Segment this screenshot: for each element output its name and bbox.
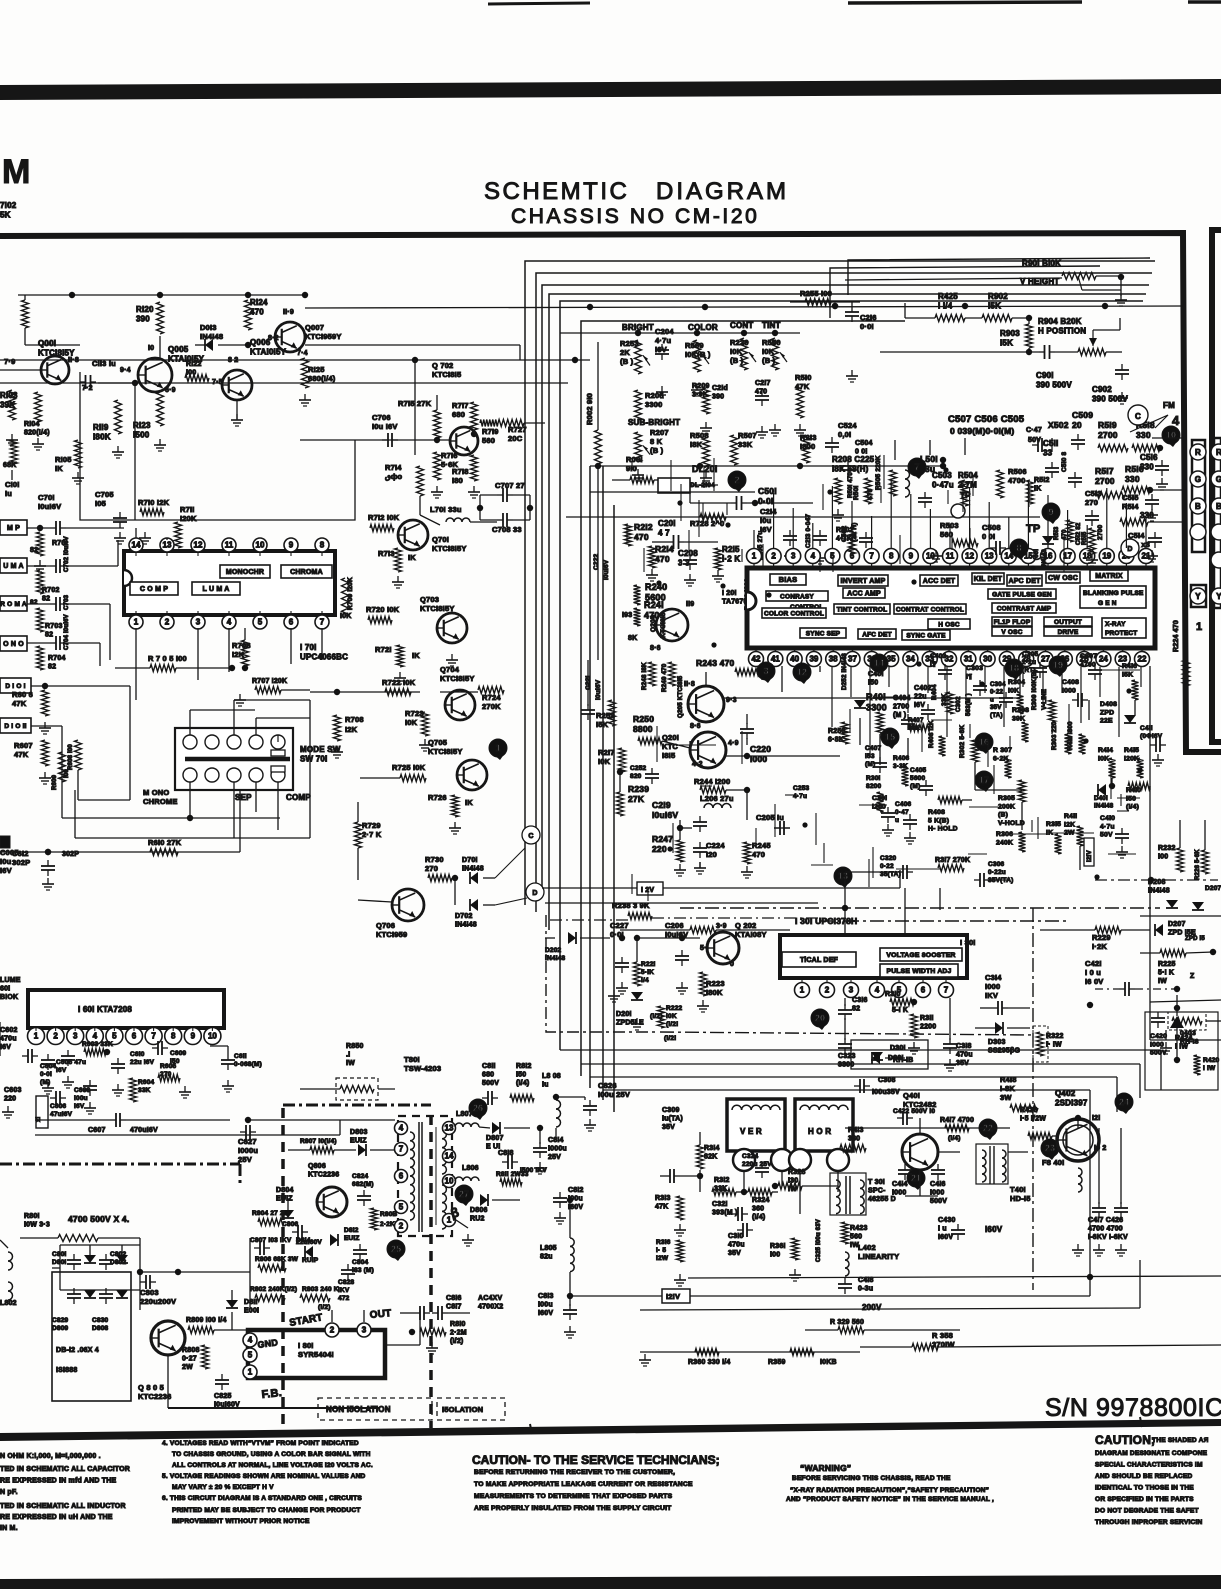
pin 22 of I201	[1135, 648, 1150, 667]
svg-text:R4I6: R4I6	[1122, 663, 1137, 670]
svg-text:C8I6: C8I6	[446, 1295, 462, 1302]
svg-text:R223: R223	[706, 979, 725, 988]
svg-text:F.B.: F.B.	[261, 1387, 283, 1401]
resistor R232	[1158, 845, 1184, 872]
svg-text:IMPROVEMENT WITHOUT PRIOR: IMPROVEMENT WITHOUT PRIOR NOTICE	[172, 1518, 310, 1525]
resistor R605	[158, 1063, 191, 1098]
svg-text:C407: C407	[865, 745, 882, 752]
svg-text:470: 470	[655, 554, 670, 564]
svg-text:3: 3	[196, 618, 201, 627]
wire bus bottom H1	[560, 1050, 1161, 1090]
resistor R718	[452, 455, 480, 498]
resistor R722	[382, 678, 416, 696]
input box COMP	[0, 520, 27, 535]
resistor R705	[115, 654, 248, 672]
svg-text:CAUTION- TO THE SERVICE TECHNC: CAUTION- TO THE SERVICE TECHNCIANS;	[472, 1453, 720, 1467]
svg-text:82: 82	[30, 547, 38, 554]
svg-text:C5I5: C5I5	[1122, 493, 1139, 502]
diode D803	[350, 1129, 395, 1156]
ground flyback	[1072, 1244, 1127, 1256]
label I701	[300, 643, 348, 662]
svg-text:IW: IW	[1158, 978, 1167, 985]
resistor R603	[82, 1041, 113, 1056]
wire vertical x603	[602, 466, 604, 1100]
svg-text:9: 9	[289, 541, 294, 550]
pin 14 T801	[443, 1150, 456, 1163]
svg-text:0·47: 0·47	[895, 809, 909, 816]
resistor R315	[1046, 821, 1062, 854]
capacitor C305	[1022, 651, 1047, 678]
svg-text:I80: I80	[452, 476, 463, 485]
capacitor C310	[728, 1223, 753, 1257]
resistor R502	[853, 478, 874, 504]
svg-text:D8I2: D8I2	[344, 1227, 359, 1234]
svg-text:D70I: D70I	[462, 857, 478, 864]
svg-text:E00I: E00I	[244, 1308, 259, 1315]
capacitor C818	[498, 1150, 547, 1174]
svg-text:I000: I000	[1062, 687, 1076, 694]
resistor R401	[866, 692, 887, 734]
svg-text:OUTPUT: OUTPUT	[1054, 619, 1082, 626]
pin 6 of I301	[916, 978, 931, 998]
svg-text:IK: IK	[465, 798, 473, 807]
resistor R503	[930, 521, 978, 562]
capacitor C309	[660, 1107, 683, 1183]
resistor R416	[1122, 663, 1139, 700]
transistor Q806	[317, 1187, 347, 1217]
svg-text:680: 680	[482, 1072, 494, 1079]
svg-text:OUT: OUT	[369, 1308, 392, 1321]
wire cluster mesh	[860, 700, 1150, 870]
mode sw contact bottom 3	[227, 768, 241, 782]
svg-text:470u: 470u	[728, 1242, 745, 1249]
capacitor C627	[238, 1125, 258, 1164]
svg-text:470u: 470u	[0, 1036, 17, 1043]
pin 4 of I201	[805, 549, 820, 569]
resistor R413	[840, 1127, 866, 1152]
svg-text:C O M P: C O M P	[140, 586, 168, 593]
capacitor C704	[37, 614, 71, 670]
wire dashdot H y921	[820, 920, 1070, 922]
svg-text:D803: D803	[350, 1129, 368, 1136]
svg-text:COMP: COMP	[286, 793, 311, 802]
capacitor C513	[1076, 489, 1102, 545]
IC I301 body	[780, 935, 967, 978]
svg-text:RI03: RI03	[0, 391, 18, 400]
svg-text:R505 220K: R505 220K	[875, 455, 882, 490]
svg-text:C605 47u: C605 47u	[56, 1059, 86, 1066]
resistor R850 dashed	[300, 1043, 395, 1100]
svg-text:TED IN SCHEMATIC ALL INDUCTOR: TED IN SCHEMATIC ALL INDUCTOR	[0, 1503, 126, 1510]
capacitor C602	[0, 1022, 38, 1063]
svg-text:38: 38	[829, 655, 838, 664]
wire flyback	[845, 1115, 1121, 1204]
wire 12v line	[663, 870, 900, 888]
svg-text:MEASUREMENTS TO DETERMINE TH: MEASUREMENTS TO DETERMINE THAT EXPOSED P…	[474, 1493, 673, 1500]
connector2 pin G	[1211, 471, 1221, 487]
svg-text:R3II: R3II	[920, 1015, 934, 1022]
circle D	[1121, 539, 1139, 557]
svg-text:C220: C220	[750, 744, 771, 754]
svg-text:I8I5: I8I5	[662, 751, 675, 760]
input box CHROMA	[0, 596, 27, 611]
svg-text:IKV: IKV	[338, 1287, 350, 1294]
svg-text:C8I2: C8I2	[568, 1187, 584, 1194]
resistor R302	[959, 725, 979, 762]
svg-text:IW: IW	[346, 1060, 355, 1067]
resistor R358	[860, 1331, 1221, 1351]
capacitor C405	[910, 767, 933, 796]
svg-text:COLOR CONTROL: COLOR CONTROL	[764, 610, 824, 617]
flag 27	[455, 1185, 473, 1206]
svg-text:33K: 33K	[738, 440, 753, 449]
svg-text:R7I0 I2K: R7I0 I2K	[138, 498, 170, 507]
wire audio block bottom	[25, 345, 355, 520]
input box AUDIO II	[0, 718, 31, 733]
handwriting FB	[261, 1387, 283, 1401]
svg-text:2·7 K: 2·7 K	[362, 830, 382, 839]
svg-text:I0K: I0K	[1098, 755, 1109, 762]
svg-text:RU2: RU2	[470, 1216, 485, 1223]
svg-text:(M): (M)	[40, 1079, 50, 1086]
wire right loops	[830, 258, 1150, 318]
svg-text:CHASSIS NO CM-I20: CHASSIS NO CM-I20	[511, 205, 759, 228]
svg-text:I0 2: I0 2	[1094, 1145, 1106, 1152]
svg-text:C2Id: C2Id	[712, 385, 728, 392]
pin 1 of I801	[243, 1365, 257, 1379]
svg-text:2K: 2K	[620, 348, 630, 357]
pot R509 COLOR	[685, 323, 718, 396]
label I801	[298, 1341, 334, 1359]
svg-text:C2I7: C2I7	[755, 380, 771, 387]
svg-text:60I: 60I	[0, 986, 10, 993]
svg-text:R604: R604	[138, 1079, 155, 1086]
svg-text:IK: IK	[412, 651, 420, 660]
svg-text:I800: I800	[800, 442, 815, 451]
svg-text:I0W 3·3: I0W 3·3	[24, 1222, 50, 1229]
svg-text:302P: 302P	[12, 858, 30, 867]
svg-text:R809 I00 I/4: R809 I00 I/4	[186, 1317, 227, 1324]
connector2 pin nc	[1211, 524, 1221, 540]
svg-text:R4I2 I800: R4I2 I800	[1067, 721, 1074, 750]
svg-text:4: 4	[1172, 413, 1180, 428]
wire bus loop 4	[549, 294, 1146, 930]
flag 20	[811, 1009, 829, 1030]
svg-text:R607: R607	[14, 741, 33, 750]
svg-text:Q 8 0 5: Q 8 0 5	[138, 1383, 164, 1392]
capacitor C113	[68, 357, 116, 389]
flag 8	[1010, 539, 1028, 560]
svg-text:TSW-4203: TSW-4203	[404, 1064, 441, 1073]
svg-text:R420: R420	[1203, 1057, 1220, 1064]
svg-text:560: 560	[940, 530, 953, 539]
svg-text:I/4: I/4	[641, 977, 649, 984]
bridge cap C829	[52, 1288, 81, 1332]
svg-text:IK: IK	[55, 464, 63, 473]
svg-text:47K: 47K	[14, 750, 29, 759]
diode D252	[841, 653, 866, 708]
svg-text:C80I: C80I	[52, 1251, 67, 1258]
wire top edge segment	[488, 2, 1221, 4]
resistor R730	[425, 855, 458, 882]
svg-text:C205 Iu: C205 Iu	[756, 813, 784, 822]
block LUMA	[192, 582, 240, 595]
resistor R105	[55, 440, 84, 484]
capacitor C706	[372, 413, 398, 447]
label Q402	[1055, 1089, 1106, 1152]
svg-text:8800: 8800	[633, 724, 653, 734]
resistor R311	[908, 1014, 936, 1054]
svg-text:I30: I30	[788, 1178, 798, 1185]
flag 13	[834, 867, 852, 888]
svg-text:ZPD5I E: ZPD5I E	[616, 1020, 644, 1027]
svg-text:C826: C826	[598, 1081, 617, 1090]
capacitor C408	[1062, 679, 1088, 707]
svg-text:ARE PROPERLY INSULATED FROM: ARE PROPERLY INSULATED FROM THE SUPPLY C…	[474, 1505, 672, 1512]
svg-text:39: 39	[809, 655, 818, 664]
handwriting GND	[257, 1308, 392, 1350]
block MATRIX	[1090, 570, 1128, 581]
resistor R807	[288, 1138, 356, 1154]
resistor R606	[12, 683, 51, 734]
capacitor C609	[152, 1041, 187, 1065]
svg-text:2·2u: 2·2u	[1022, 659, 1036, 666]
svg-text:6: 6	[289, 618, 294, 627]
svg-text:R3I2: R3I2	[714, 1177, 730, 1184]
svg-text:Q40I: Q40I	[903, 1091, 920, 1100]
wire x337	[310, 691, 478, 693]
svg-text:82: 82	[48, 664, 56, 671]
svg-text:2W: 2W	[182, 1364, 193, 1371]
svg-text:6: 6	[399, 1172, 404, 1181]
capacitor C324	[742, 1153, 772, 1178]
svg-text:R002 9I0: R002 9I0	[585, 393, 594, 425]
pin 3 of I201	[786, 549, 801, 569]
svg-text:23: 23	[1045, 1143, 1055, 1153]
wire RGB feeds	[1148, 438, 1186, 522]
pin 21 of I201	[1139, 549, 1154, 569]
svg-text:F8 40I: F8 40I	[1042, 1158, 1064, 1167]
svg-text:T40I: T40I	[1010, 1185, 1026, 1194]
coil L808	[542, 1073, 585, 1140]
label T801	[404, 1055, 441, 1073]
svg-text:22: 22	[1138, 655, 1147, 664]
svg-text:(M ): (M )	[893, 712, 906, 719]
svg-text:L206 27u: L206 27u	[700, 794, 734, 803]
svg-text:R255 I00: R255 I00	[800, 289, 832, 298]
block CONTRAST AMP	[992, 603, 1056, 613]
capacitor C503	[918, 471, 978, 508]
mode sw contact top 5	[271, 735, 285, 749]
svg-text:D0I3: D0I3	[200, 323, 217, 332]
transistor Q706	[392, 889, 424, 921]
svg-text:C406: C406	[895, 801, 912, 808]
svg-text:R704: R704	[48, 655, 66, 662]
wire I701 bottoms	[136, 628, 322, 700]
svg-text:15: 15	[885, 732, 895, 742]
svg-text:3W: 3W	[1000, 1093, 1012, 1102]
svg-text:I0u: I0u	[0, 857, 12, 866]
svg-text:7·2: 7·2	[82, 385, 93, 392]
resistor R240	[634, 582, 668, 605]
svg-text:CONRASY: CONRASY	[780, 593, 814, 600]
svg-text:Q 702: Q 702	[432, 361, 453, 370]
svg-text:39K: 39K	[1012, 715, 1025, 722]
coil L501	[875, 454, 938, 497]
svg-text:I u: I u	[938, 1226, 947, 1233]
capacitor C511	[1043, 439, 1059, 478]
capacitor C504 area	[832, 440, 875, 521]
resistor R245	[741, 841, 771, 878]
block AFC DET	[858, 629, 896, 639]
svg-text:3300: 3300	[838, 1062, 854, 1069]
capacitor C508	[982, 523, 1006, 555]
capacitor C824	[352, 1173, 374, 1206]
pin 20 of I201	[1119, 549, 1134, 569]
svg-text:I0uI6V: I0uI6V	[38, 502, 61, 511]
svg-text:2: 2	[330, 1326, 335, 1335]
capacitor C214	[760, 507, 797, 562]
resistor R812	[510, 1063, 534, 1102]
wire right v	[1150, 760, 1205, 1040]
svg-text:C325 I00u 63V: C325 I00u 63V	[816, 1219, 822, 1262]
svg-text:(I/2I: (I/2I	[666, 1021, 678, 1028]
svg-text:5·I: 5·I	[700, 945, 709, 952]
svg-text:RI20: RI20	[136, 305, 154, 314]
capacitor C204	[655, 327, 674, 398]
svg-text:2200: 2200	[920, 1024, 936, 1031]
svg-text:R8I2: R8I2	[516, 1063, 532, 1070]
svg-text:I5K: I5K	[1122, 671, 1133, 678]
svg-text:0·22u: 0·22u	[988, 869, 1006, 876]
svg-text:IN4I48: IN4I48	[462, 866, 484, 873]
svg-text:RUIP: RUIP	[302, 1257, 319, 1264]
svg-text:C42I: C42I	[1085, 959, 1102, 968]
capacitor C221	[581, 660, 602, 720]
capacitor C813	[538, 1272, 577, 1338]
capacitor C807	[250, 1237, 292, 1255]
resistor R306	[996, 831, 1026, 852]
svg-text:82: 82	[852, 1006, 860, 1013]
resistor R610	[148, 790, 240, 856]
svg-text:R509: R509	[685, 341, 704, 350]
input box LUMA	[0, 558, 27, 573]
svg-text:4: 4	[227, 618, 232, 627]
pin 9 of I701	[284, 538, 298, 556]
note column 1	[0, 1453, 130, 1532]
pin 11 of I701	[222, 538, 236, 556]
diode D301c	[872, 1045, 913, 1064]
resistor R721	[375, 645, 458, 684]
resistor R724	[478, 687, 504, 712]
svg-text:R00I: R00I	[626, 455, 643, 464]
svg-text:R608 I00: R608 I00	[68, 744, 74, 770]
svg-text:12: 12	[194, 541, 203, 550]
resistor R805	[371, 1208, 405, 1230]
svg-text:13: 13	[985, 552, 994, 561]
bridge cap C801	[52, 1251, 81, 1270]
svg-text:1: 1	[248, 1368, 253, 1377]
svg-text:5: 5	[399, 1203, 404, 1212]
capacitor C901	[880, 345, 1078, 390]
wire bus bottom H2	[581, 1064, 1140, 1098]
svg-text:R304: R304	[1008, 679, 1025, 686]
svg-text:R309 I00K(B): R309 I00K(B)	[1031, 669, 1038, 710]
label SEP	[235, 793, 252, 802]
svg-text:24: 24	[1119, 1097, 1129, 1107]
resistor R312	[712, 1177, 736, 1196]
coil L402	[845, 1243, 899, 1276]
pin 19 of I201	[1099, 549, 1114, 569]
resistor R506	[997, 467, 1050, 504]
svg-text:CONT: CONT	[730, 321, 753, 330]
pin 16 of I201	[1041, 549, 1056, 569]
capacitor C811	[482, 1063, 499, 1105]
transistor Q204	[656, 609, 688, 641]
svg-text:1: 1	[752, 552, 757, 561]
svg-text:II9: II9	[686, 601, 694, 608]
svg-text:D30I: D30I	[890, 1045, 906, 1052]
input box AUDIO I	[0, 678, 31, 693]
pot R408 H-HOLD	[928, 797, 972, 833]
capacitor C610	[111, 1051, 155, 1096]
svg-text:R723: R723	[405, 709, 424, 718]
svg-text:C502: C502	[841, 525, 848, 542]
diode D811	[226, 1290, 259, 1330]
capacitor C208	[678, 549, 698, 586]
capacitor C515	[1122, 493, 1159, 521]
box D301 rh	[851, 1040, 928, 1069]
svg-text:R803 240 K: R803 240 K	[302, 1286, 339, 1293]
pin 11 of I201	[943, 549, 958, 569]
resistor R729	[355, 802, 382, 880]
svg-text:C603: C603	[4, 1087, 22, 1094]
svg-text:220u 25V: 220u 25V	[742, 1161, 772, 1168]
svg-text:12: 12	[797, 667, 807, 677]
flag 1	[489, 739, 507, 760]
resistor R406	[893, 755, 910, 786]
svg-text:KTCI959: KTCI959	[376, 930, 407, 939]
svg-text:(B ): (B )	[650, 446, 664, 455]
pin 2 of I201	[766, 549, 781, 569]
svg-text:R2I4: R2I4	[655, 544, 674, 554]
svg-text:4·7u: 4·7u	[1100, 823, 1115, 830]
pin 6 T801	[395, 1170, 408, 1183]
resistor R252	[596, 700, 616, 729]
transistor Q805	[151, 1321, 185, 1355]
svg-text:HD-I5: HD-I5	[1010, 1194, 1031, 1203]
pin 3 of I301	[844, 978, 859, 998]
svg-text:C706: C706	[372, 413, 391, 422]
resistor R706	[232, 628, 251, 666]
block FLIP FLOP	[992, 617, 1032, 626]
svg-text:500V: 500V	[1150, 1050, 1167, 1057]
svg-text:I2K: I2K	[232, 650, 245, 659]
svg-text:SYNC GATE: SYNC GATE	[906, 632, 946, 639]
svg-text:17: 17	[979, 775, 989, 785]
svg-text:(I/4): (I/4)	[948, 1135, 961, 1142]
flag 3	[757, 662, 775, 683]
resistor R124	[245, 298, 269, 348]
capacitor C812	[553, 1187, 584, 1224]
svg-text:C222: C222	[593, 553, 600, 570]
right panel border	[1212, 230, 1221, 742]
svg-text:19: 19	[1102, 552, 1111, 561]
svg-text:C8II: C8II	[482, 1063, 496, 1070]
pin 24 of I201	[1096, 648, 1111, 667]
svg-text:I000u: I000u	[548, 1146, 567, 1153]
svg-text:R244 I200: R244 I200	[694, 777, 730, 786]
